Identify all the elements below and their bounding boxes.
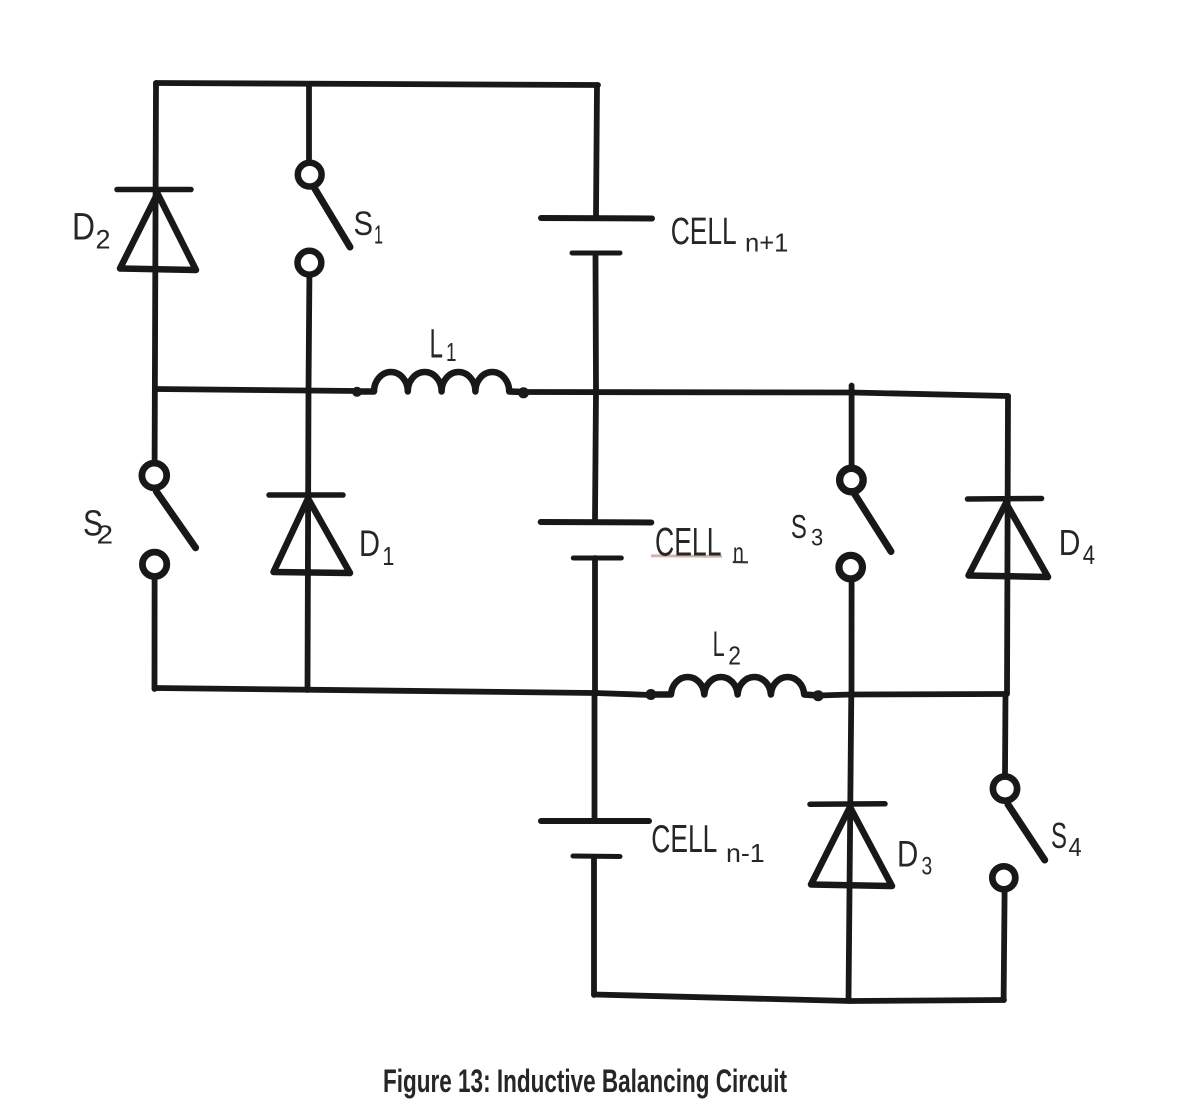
svg-text:2: 2: [97, 520, 114, 550]
svg-text:CELL: CELL: [655, 521, 722, 565]
svg-text:1: 1: [374, 220, 383, 250]
svg-text:1: 1: [382, 541, 394, 571]
svg-text:1: 1: [446, 337, 457, 367]
svg-text:4: 4: [1083, 540, 1095, 570]
svg-text:D: D: [1059, 522, 1081, 563]
svg-text:S: S: [354, 205, 374, 243]
svg-text:3: 3: [811, 525, 823, 552]
svg-text:n-1: n-1: [726, 838, 765, 868]
svg-text:3: 3: [922, 852, 933, 880]
svg-text:Figure 13: Inductive Balancing: Figure 13: Inductive Balancing Circuit: [383, 1063, 787, 1099]
svg-text:L: L: [430, 321, 444, 367]
svg-text:S: S: [1051, 815, 1067, 856]
svg-text:D: D: [359, 523, 380, 564]
svg-text:CELL: CELL: [671, 211, 737, 253]
svg-text:2: 2: [728, 641, 741, 671]
svg-text:2: 2: [96, 225, 111, 255]
svg-text:CELL: CELL: [651, 818, 717, 861]
svg-text:n: n: [733, 538, 744, 568]
svg-text:D: D: [72, 207, 95, 249]
svg-text:D: D: [897, 834, 918, 875]
svg-text:L: L: [713, 625, 725, 664]
svg-text:4: 4: [1069, 832, 1082, 862]
svg-text:S: S: [791, 508, 807, 545]
svg-text:n+1: n+1: [745, 228, 788, 258]
